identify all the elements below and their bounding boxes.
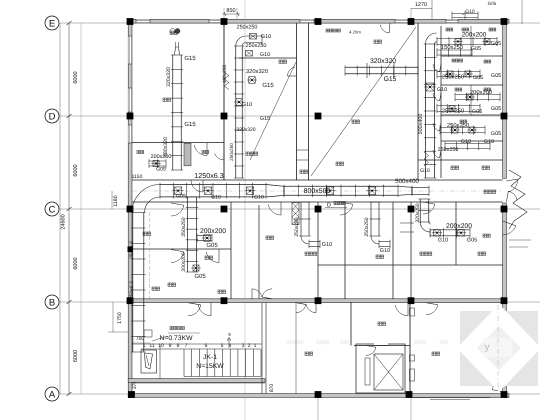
svg-text:200x200: 200x200	[151, 154, 172, 160]
svg-text:G10: G10	[254, 195, 264, 201]
partition x259 mid lower	[258, 205, 260, 299]
svg-text:1750: 1750	[117, 312, 123, 324]
column 6	[127, 113, 134, 120]
room label 15	[482, 166, 485, 169]
svg-text:6000: 6000	[73, 257, 79, 269]
svg-text:150x250: 150x250	[441, 44, 463, 51]
column 7	[221, 113, 228, 120]
diffuser corridor x208	[204, 187, 212, 195]
wall bottom	[128, 394, 509, 398]
svg-text:700: 700	[136, 336, 145, 342]
duct elbow corridor left	[132, 185, 160, 213]
svg-text:1180: 1180	[113, 195, 119, 206]
column 11	[221, 206, 228, 213]
grid bubble A	[45, 387, 59, 401]
svg-text:N=0.73KW: N=0.73KW	[159, 335, 193, 342]
grid bubble C	[45, 202, 59, 216]
dim tick left	[67, 21, 72, 25]
wing wall y141	[441, 140, 503, 142]
svg-text:G10: G10	[211, 195, 221, 201]
door mid y249 b	[206, 252, 219, 263]
elevator shaft	[356, 344, 405, 393]
room label 2	[279, 60, 282, 63]
svg-text:G10: G10	[420, 168, 430, 174]
wing wall y85	[441, 84, 503, 86]
elevator lobby line	[295, 302, 297, 394]
svg-text:10: 10	[158, 343, 164, 349]
partition x351 bottom	[350, 302, 352, 346]
grid line C	[60, 208, 540, 210]
room label 7	[143, 232, 146, 235]
wing duct y52	[437, 49, 472, 51]
duct centreline left	[149, 212, 151, 299]
duct branch diffuser	[204, 235, 211, 242]
corridor wall upper	[132, 179, 503, 181]
duct drop x305	[300, 202, 302, 236]
svg-text:250x250: 250x250	[229, 143, 234, 161]
svg-text:G10: G10	[261, 34, 271, 40]
svg-text:G10: G10	[438, 238, 448, 244]
svg-text:D: D	[49, 111, 56, 122]
dim chain overall left	[59, 23, 61, 394]
svg-text:1250x6.3: 1250x6.3	[194, 171, 224, 180]
window top 136	[136, 19, 150, 23]
column 10	[127, 206, 134, 213]
wing duct y74	[437, 70, 480, 72]
partition x345 mid	[344, 202, 346, 299]
partition stair right x262	[261, 303, 263, 394]
grid bubble D	[45, 109, 59, 123]
window top 209	[209, 19, 221, 23]
duct main corridor	[160, 184, 266, 186]
duct room3	[345, 66, 418, 68]
svg-text:200x200: 200x200	[181, 252, 187, 271]
door mid band 1	[171, 205, 184, 216]
dim tick left	[67, 300, 72, 304]
svg-text:850: 850	[226, 8, 235, 14]
shaft inner lines	[297, 149, 309, 151]
svg-text:320x250: 320x250	[415, 203, 421, 222]
duct riser1 taper	[175, 47, 180, 55]
room label 24	[218, 290, 221, 293]
svg-text:G05: G05	[194, 273, 206, 280]
wall top	[128, 19, 509, 23]
svg-text:G15: G15	[184, 55, 196, 62]
diffuser corridor x250	[246, 187, 254, 195]
svg-text:C: C	[49, 204, 56, 215]
grid col line x237 above	[236, 8, 238, 20]
duct riser2 diffuser2	[236, 99, 243, 106]
duct riser3 elbow top	[426, 33, 437, 44]
column 17	[315, 297, 322, 304]
grid col line x411 below	[410, 397, 412, 420]
svg-text:6: 6	[205, 343, 208, 349]
stair top wall y344	[132, 343, 262, 345]
svg-text:N=15KW: N=15KW	[196, 363, 224, 370]
left bay tiny labels	[137, 151, 140, 154]
svg-text:G05: G05	[206, 242, 218, 249]
stair small box	[144, 330, 152, 337]
column 2	[221, 18, 228, 25]
mid wall y249	[132, 248, 231, 250]
elevator slot	[365, 358, 370, 385]
left bay door	[194, 145, 207, 156]
door right walkway a	[508, 179, 517, 192]
svg-text:200x200: 200x200	[200, 228, 226, 235]
stair treads	[183, 349, 185, 377]
grid col line x224 above	[223, 8, 225, 20]
column 20	[128, 391, 135, 398]
stair tread top	[141, 348, 260, 350]
room label 10	[305, 252, 308, 255]
door mid y249 a	[171, 252, 184, 263]
grid line D	[60, 115, 540, 117]
duct riser3 big diffuser	[426, 83, 434, 91]
svg-text:G15: G15	[384, 76, 397, 83]
exterior strip line	[132, 382, 265, 384]
duct corridor taper1	[266, 185, 284, 198]
door wing 1	[433, 64, 440, 72]
room label 17	[378, 322, 381, 325]
room label 18	[432, 352, 435, 355]
door B wall x252 dbl	[252, 289, 262, 297]
svg-text:320x320: 320x320	[166, 67, 172, 87]
watermark faint band	[287, 341, 448, 344]
duct xbraced drop	[292, 203, 299, 225]
column 8	[315, 113, 322, 120]
svg-text:G05: G05	[491, 73, 501, 79]
room2 partition y58	[239, 57, 297, 59]
column 12	[315, 206, 322, 213]
wall left	[128, 19, 132, 397]
column 19	[501, 297, 508, 304]
break symbol right	[509, 170, 527, 229]
diagonal big room	[311, 27, 416, 176]
column 13	[408, 206, 415, 213]
svg-text:500x400: 500x400	[418, 114, 424, 135]
watermark	[457, 304, 541, 392]
room label 20	[152, 287, 155, 290]
wall stair south	[128, 379, 265, 383]
elevator door	[374, 343, 388, 345]
duct drop right elbow2	[420, 222, 430, 232]
column 14	[501, 206, 508, 213]
column 5	[501, 18, 508, 25]
duct riser2 diffuser	[249, 77, 256, 84]
duct riser2 elbow top	[236, 36, 262, 46]
wing duct y97	[455, 94, 500, 96]
door B wall dbl left	[188, 305, 201, 316]
room label 11	[376, 255, 379, 258]
svg-text:320x320: 320x320	[246, 68, 268, 75]
column 22	[406, 391, 413, 398]
grid col line x318 below	[317, 397, 319, 420]
grid line B	[60, 301, 540, 303]
dim tick left	[67, 114, 72, 118]
door room1 to corridor	[191, 180, 203, 192]
svg-text:8: 8	[177, 343, 180, 349]
window top 300	[300, 19, 314, 23]
column 1	[127, 18, 134, 25]
svg-text:G10: G10	[260, 52, 270, 58]
duct riser2	[235, 46, 237, 178]
svg-text:G05: G05	[488, 1, 497, 6]
window left 36	[128, 36, 132, 64]
column 16	[221, 297, 228, 304]
door wing 3	[433, 123, 440, 131]
svg-text:250x250: 250x250	[237, 25, 258, 31]
exterior line x522	[521, 0, 523, 24]
svg-text:7: 7	[185, 343, 188, 349]
window top 395	[395, 19, 408, 23]
room label 12	[420, 252, 423, 255]
door wing 4	[433, 150, 440, 158]
room label 19	[484, 190, 487, 193]
svg-text:G10: G10	[484, 139, 494, 145]
svg-text:G05: G05	[156, 167, 166, 173]
duct drop x192	[187, 197, 189, 272]
room label 5	[246, 152, 249, 155]
wing wall y56	[441, 55, 503, 57]
column 3	[315, 18, 322, 25]
grid line E	[60, 22, 540, 24]
window top 446	[446, 19, 458, 23]
duct room3 drop tick	[366, 63, 368, 78]
room label 3	[163, 98, 166, 101]
room label 14	[451, 166, 454, 169]
column 15	[127, 297, 134, 304]
corridor wall lower	[132, 201, 503, 203]
svg-text:3: 3	[242, 343, 245, 349]
grid line A	[60, 393, 540, 395]
column 9	[501, 113, 508, 120]
svg-text:200x200: 200x200	[446, 223, 472, 230]
room label 23	[352, 120, 355, 123]
gray riser shaft	[184, 143, 191, 166]
door room3 top	[380, 25, 389, 33]
duct riser3 wing	[425, 44, 427, 178]
svg-text:250x250: 250x250	[442, 74, 464, 81]
partition x231 mid	[230, 202, 232, 299]
door wing 2	[433, 93, 440, 101]
room label 1	[374, 40, 377, 43]
duct riser2 damper a	[250, 34, 257, 40]
room2b diagonal	[250, 62, 296, 160]
room label 21	[168, 283, 171, 286]
svg-text:G05: G05	[491, 106, 501, 112]
column 23	[501, 391, 508, 398]
room label 4	[300, 170, 303, 173]
wall right upper	[503, 19, 507, 178]
svg-text:G10: G10	[437, 87, 447, 93]
duct riser3 flex	[424, 152, 429, 166]
svg-text:G15: G15	[260, 116, 270, 122]
duct elbow right down	[419, 199, 421, 222]
fixtures right room	[410, 308, 415, 316]
svg-text:250x250: 250x250	[364, 217, 370, 236]
column 4	[408, 18, 415, 25]
svg-text:320x320: 320x320	[370, 58, 396, 65]
room label 22	[170, 31, 173, 34]
door mid band 3	[340, 204, 353, 215]
svg-text:1150: 1150	[132, 174, 143, 180]
svg-text:9: 9	[169, 343, 172, 349]
duct mid right	[430, 229, 470, 231]
svg-text:6000: 6000	[73, 350, 79, 362]
svg-text:y: y	[485, 342, 490, 353]
svg-text:2: 2	[248, 343, 251, 349]
furniture circles room1	[170, 29, 175, 34]
svg-text:250x250: 250x250	[246, 43, 267, 49]
partition x418 upper	[417, 23, 419, 180]
svg-text:250x250: 250x250	[442, 108, 464, 115]
svg-text:250x6.3: 250x6.3	[129, 281, 135, 299]
wing duct y130	[440, 126, 485, 128]
svg-text:G05: G05	[467, 238, 477, 244]
stair fan box	[141, 350, 157, 373]
svg-text:4.20m: 4.20m	[349, 30, 361, 35]
svg-text:6000: 6000	[73, 164, 79, 176]
stair arrow up	[228, 338, 230, 348]
door mid band 4	[423, 204, 435, 214]
svg-text:870: 870	[269, 384, 275, 393]
svg-text:G05: G05	[491, 41, 501, 47]
door room2 partition	[215, 153, 224, 160]
svg-text:G10: G10	[242, 102, 252, 108]
dim chain left	[68, 23, 70, 394]
svg-text:G10: G10	[461, 139, 471, 145]
wing duct y42	[437, 38, 497, 40]
door B wall x408	[395, 305, 408, 316]
wing tiny labels top	[446, 28, 449, 31]
porch line bottom	[410, 396, 490, 398]
left bay partition y142.6	[132, 142, 224, 144]
duct drop x375	[370, 202, 372, 236]
svg-text:5: 5	[221, 343, 224, 349]
duct corridor taper	[398, 186, 412, 195]
svg-text:1: 1	[254, 343, 257, 349]
room label 16	[305, 352, 308, 355]
partition x318f mid	[317, 202, 319, 299]
wing partition x471b	[470, 85, 472, 115]
toilet stub walls	[400, 222, 414, 224]
svg-text:G15: G15	[184, 121, 196, 128]
svg-text:G05: G05	[471, 46, 481, 52]
door bottom right ext	[492, 379, 503, 390]
door right walkway b	[508, 191, 517, 200]
wing duct y146	[445, 143, 490, 145]
grid col line x432 above	[431, 0, 433, 20]
svg-text:G05: G05	[472, 109, 482, 115]
svg-text:1270: 1270	[415, 2, 427, 8]
partition x296 shaft	[296, 23, 298, 180]
svg-text:JK-1: JK-1	[203, 354, 217, 361]
wall right lower	[503, 203, 507, 397]
door B wall dbl x306	[296, 304, 306, 312]
svg-text:G15: G15	[262, 82, 274, 89]
partition x456 mid	[455, 202, 457, 265]
diagonal label	[326, 29, 329, 32]
svg-text:1: 1	[143, 343, 146, 349]
svg-text:24600: 24600	[61, 214, 67, 229]
svg-text:G10: G10	[465, 9, 475, 15]
diffuser corridor x330	[326, 187, 334, 195]
svg-text:6000: 6000	[73, 71, 79, 83]
svg-text:200x200: 200x200	[462, 32, 487, 39]
wing top duct above wall	[452, 12, 478, 14]
svg-text:250x250: 250x250	[294, 217, 300, 236]
svg-text:B: B	[49, 297, 55, 308]
wing partition x471a	[470, 26, 472, 56]
room label 9	[266, 236, 269, 239]
duct corridor 500x400 part	[412, 186, 429, 188]
column mid-left wall	[128, 247, 134, 253]
duct drop foot diffuser	[193, 265, 199, 271]
svg-text:320x320: 320x320	[236, 127, 255, 133]
duct mid right diffusers	[434, 230, 441, 237]
svg-text:400x200: 400x200	[222, 64, 228, 83]
window left 125	[128, 125, 132, 143]
stair leader	[152, 336, 168, 341]
mid wall y265	[318, 264, 503, 266]
svg-text:G05: G05	[473, 75, 483, 81]
room label 6	[336, 162, 339, 165]
stair flight wall	[159, 344, 161, 379]
centreline bottom right room	[497, 305, 499, 392]
stair text cjk above	[170, 327, 173, 330]
room label 8	[205, 256, 208, 259]
svg-text:500x400: 500x400	[395, 178, 419, 185]
svg-text:200x200: 200x200	[470, 89, 492, 96]
duct riser2 damper b	[246, 51, 253, 57]
dim ext line x81	[80, 23, 82, 394]
door shaft	[287, 67, 294, 76]
room label 13	[478, 252, 481, 255]
wall row B	[132, 299, 503, 303]
duct riser left wall	[132, 213, 134, 353]
door right wall y225	[503, 226, 516, 235]
svg-text:G05: G05	[491, 131, 501, 137]
diffuser corridor x372	[368, 187, 376, 195]
grid bubble E	[45, 16, 59, 30]
svg-text:G10: G10	[380, 248, 390, 254]
partition x308 shaft	[308, 23, 310, 180]
duct drop branch 200x200	[197, 235, 212, 237]
dim tick left	[67, 207, 72, 211]
duct mid right label2	[483, 234, 486, 237]
stair tread bottom	[184, 376, 261, 378]
partition x411f mid	[410, 202, 412, 299]
grid col line x245 full	[244, 0, 246, 420]
svg-text:G05: G05	[176, 194, 186, 200]
svg-text:G10: G10	[322, 242, 332, 248]
partition x441 wing	[440, 26, 442, 178]
duct riser1	[172, 55, 174, 170]
partition x393 mid	[392, 202, 394, 299]
bottom wall y345	[354, 345, 410, 347]
elevator X	[374, 354, 403, 390]
duct main corridor seg2	[284, 185, 398, 187]
svg-text:250x6.3: 250x6.3	[129, 241, 135, 259]
door B wall x432	[426, 305, 438, 315]
grid col line x411 above	[410, 8, 412, 20]
exterior step right	[509, 239, 531, 241]
svg-text:250x250: 250x250	[181, 217, 187, 236]
duct riser1 foot	[149, 160, 166, 162]
partition x224 upper	[223, 23, 225, 180]
diffuser corridor x178	[174, 187, 182, 195]
corridor centreline	[132, 190, 503, 192]
